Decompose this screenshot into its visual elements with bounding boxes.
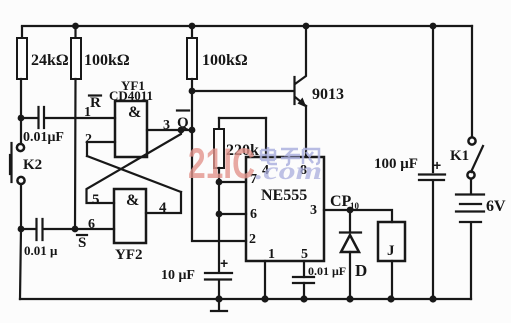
transistor Q1 emitter (295, 97, 306, 106)
svg-text:+: + (220, 255, 228, 271)
wire rail down to capacitor C5 (432, 26, 434, 172)
wire C4 to rail (303, 283, 305, 299)
node A junction dot R-cap (18, 115, 25, 122)
wire cross-couple diagonal pin2 to pin4 (87, 156, 181, 192)
svg-text:4: 4 (159, 200, 167, 216)
capacitor C2 0.01u plates (37, 219, 43, 240)
svg-text:1: 1 (84, 105, 91, 120)
nand gate U2 YF2 box (114, 189, 146, 243)
svg-text:R: R (90, 95, 101, 111)
wire NE555 pin8 stub from emitter (305, 106, 307, 157)
svg-text:100kΩ: 100kΩ (84, 52, 130, 69)
wire left branch from rail to resistor R1 (21, 27, 23, 38)
capacitor C5 bottom plate (419, 179, 444, 181)
wire pin6 (219, 213, 246, 215)
wire rail right end down to K1 (471, 26, 473, 137)
wire cross-couple diagonal Q-bar to pin5 (87, 130, 182, 203)
junction dot C5 rail (429, 295, 436, 302)
wire R3 bottom down to NE555 pin2 (192, 79, 246, 241)
node S-bar junction dot (72, 226, 79, 233)
svg-text:.com: .com (255, 158, 322, 185)
ground symbol stub (218, 299, 220, 310)
wire NE555 pin1 stub to rail (264, 261, 266, 299)
wire NE555 pin5 stub (303, 261, 305, 277)
nand gate U1 YF1 box (115, 101, 147, 157)
junction dot rail at C5 (430, 23, 437, 30)
svg-text:NE555: NE555 (261, 187, 307, 204)
wire node A to C1 (21, 117, 37, 119)
junction dot J rail (387, 295, 394, 302)
battery B1 plate short 1 (460, 203, 481, 205)
transistor Q1 9013 base bar (293, 77, 295, 104)
wire rail to R2 top (74, 26, 76, 38)
wire pin7 (219, 181, 246, 183)
svg-text:6: 6 (250, 207, 257, 222)
svg-text:CD4011: CD4011 (109, 88, 153, 103)
junction dot pin7 node (216, 179, 223, 186)
switch K1 top contact circle (468, 137, 475, 144)
wire 220k loop top (219, 117, 266, 119)
wire R2 bottom down to S-bar node (74, 79, 77, 229)
wire pin4 bracket (146, 192, 181, 213)
wire 24k rail dot to resistor R2 (72, 23, 79, 30)
capacitor C1 0.01uF plates (39, 107, 45, 128)
wire S-bar node to YF2 pin6 (75, 228, 114, 230)
wire YF1 output pin3 to Q-bar node (147, 129, 193, 131)
diode D triangle (341, 235, 359, 252)
wire NE555 pin4 stub (265, 118, 267, 157)
capacitor C4 0.01uF plates (293, 277, 314, 283)
transistor Q1 collector (295, 26, 306, 84)
watermark chinese chars (261, 147, 319, 165)
resistor R1 24k body (17, 38, 27, 79)
junction dot rail at R3 (189, 23, 196, 30)
wire base node to Q1 base (192, 90, 293, 92)
wire 220k top lead (218, 118, 220, 129)
wire node to C2 (21, 228, 35, 230)
capacitor C3 bottom plate (205, 278, 231, 280)
svg-text:&: & (128, 104, 141, 121)
wire bottom ground rail (20, 298, 471, 300)
wire NE555 pin3 output (324, 210, 392, 222)
junction dot Q-bar on pullup line (189, 127, 196, 134)
switch K1 bottom contact circle (467, 171, 474, 178)
battery B1 plate long 2 (456, 210, 484, 212)
timer U3 NE555 box (246, 157, 324, 261)
junction dot base node (189, 88, 196, 95)
svg-text:100 μF: 100 μF (374, 156, 418, 172)
battery B1 plate short 2 (460, 221, 481, 223)
relay J box (378, 222, 405, 261)
wire rail to R3 top (191, 26, 193, 38)
diode D cathode bar (340, 231, 361, 233)
svg-text:YF2: YF2 (115, 247, 143, 263)
svg-text:&: & (126, 192, 139, 209)
svg-text:6: 6 (88, 217, 95, 232)
wire YF1 pin2 jog (87, 142, 115, 156)
wire C5 to bottom rail (432, 182, 434, 299)
diode D bottom lead (349, 252, 351, 299)
wire C3 to bottom rail (218, 281, 220, 299)
resistor R4 220k body (214, 129, 224, 168)
svg-text:3: 3 (163, 118, 170, 133)
overline of R (89, 94, 101, 96)
wire R1 bottom to K2 (20, 79, 22, 144)
resistor R2 100k body (71, 38, 81, 79)
svg-text:9013: 9013 (312, 86, 344, 103)
diode D top lead (349, 210, 351, 231)
svg-text:100kΩ: 100kΩ (202, 52, 248, 69)
junction dot pin1 rail (261, 295, 268, 302)
svg-text:2: 2 (249, 232, 256, 247)
switch K2 actuator thin line (10, 143, 12, 182)
svg-text:3: 3 (310, 203, 317, 218)
capacitor C5 100uF top plate (419, 173, 445, 175)
wire C2 to S-bar node (44, 228, 76, 230)
wire 220k bottom down through pins to cap (218, 168, 220, 272)
junction dot rail at collector (303, 23, 310, 30)
node S junction dot at K2 line (18, 226, 25, 233)
switch K2 bottom contact circle (17, 177, 24, 184)
svg-text:+: + (433, 157, 441, 173)
svg-text:10 μF: 10 μF (161, 268, 195, 283)
wire top supply rail (22, 25, 472, 27)
svg-text:24kΩ: 24kΩ (31, 52, 69, 69)
junction dot diode rail (346, 295, 353, 302)
junction dot pin3 node (347, 207, 354, 214)
wire down-left to bottom rail (20, 229, 21, 299)
svg-text:0.01 μ: 0.01 μ (24, 243, 58, 258)
wire K1 to battery (470, 179, 472, 193)
battery B1 plate long 1 (456, 193, 484, 195)
svg-text:6V: 6V (486, 198, 506, 215)
overline of S (77, 234, 87, 236)
switch K2 push bar (9, 155, 11, 174)
junction dot pin6 node (216, 211, 223, 218)
svg-text:5: 5 (301, 247, 308, 262)
svg-text:5: 5 (92, 192, 100, 208)
svg-text:K2: K2 (23, 157, 42, 173)
wire K2 bottom down to ground rail (20, 184, 22, 229)
svg-text:D: D (355, 261, 367, 280)
svg-text:0.01 μF: 0.01 μF (308, 264, 346, 278)
svg-text:S: S (78, 235, 86, 251)
wire C1 to gate YF1 pin1 (45, 117, 115, 119)
wire battery to bottom rail (470, 224, 472, 299)
switch K2 top contact circle (17, 144, 24, 151)
junction dot Q-bar branch (178, 127, 185, 134)
svg-text:1: 1 (268, 247, 275, 262)
ground symbol bar (211, 310, 227, 312)
svg-text:K1: K1 (450, 148, 469, 164)
junction dot ground node (215, 295, 222, 302)
transistor Q1 emitter arrowhead (298, 98, 307, 108)
resistor R3 100k body (187, 38, 197, 79)
svg-text:21IC: 21IC (188, 140, 255, 188)
svg-text:J: J (387, 243, 395, 259)
switch K1 blade (471, 146, 483, 172)
svg-text:0.01μF: 0.01μF (23, 130, 64, 145)
wire J bottom to rail (391, 261, 393, 299)
junction dot C4 rail (300, 295, 307, 302)
overline of Q (177, 109, 189, 111)
capacitor C3 10uF top plate (205, 272, 232, 274)
